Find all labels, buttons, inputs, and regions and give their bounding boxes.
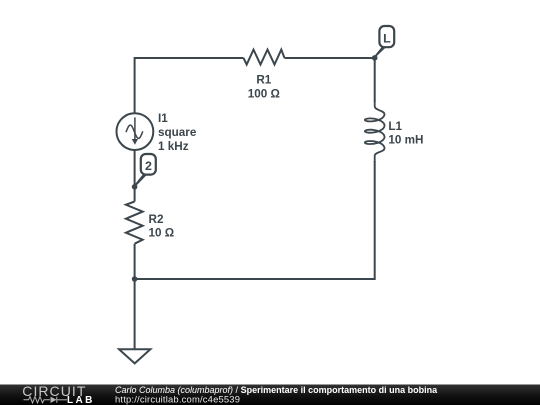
footer bar [0, 385, 540, 405]
svg-text:http://circuitlab.com/c4e5539: http://circuitlab.com/c4e5539 [115, 394, 240, 405]
svg-text:100 Ω: 100 Ω [248, 88, 280, 101]
wire right side down to inductor [374, 58, 376, 102]
svg-text:L: L [383, 31, 391, 45]
wire R1 to node L corner [285, 57, 375, 59]
I1 arrowhead [132, 139, 138, 145]
svg-text:2: 2 [145, 159, 152, 173]
svg-text:R2: R2 [149, 213, 164, 226]
ground [119, 349, 150, 363]
node 2 flag [135, 154, 156, 186]
svg-text:10 Ω: 10 Ω [149, 227, 175, 240]
inductor L1 [365, 101, 385, 163]
junction bottom-left dot [132, 276, 138, 282]
node L flag [374, 26, 394, 57]
I1 arrow shaft [134, 117, 136, 140]
svg-text:R1: R1 [256, 74, 271, 87]
current source I1 circle [116, 113, 153, 150]
junction node L dot [372, 55, 378, 61]
svg-text:L1: L1 [388, 120, 402, 133]
CircuitLab logo circuit line [24, 397, 68, 403]
resistor R2 [126, 202, 143, 244]
wire R2 to ground [134, 244, 136, 350]
junction node 2 dot [132, 184, 138, 190]
wire source to node 2 and resistor R2 [134, 150, 136, 202]
svg-text:I1: I1 [158, 112, 168, 125]
I1 sine squiggle [126, 125, 143, 138]
CircuitLab logo diode [51, 397, 57, 403]
wire top-left to R1 [135, 58, 244, 113]
svg-text:1 kHz: 1 kHz [158, 140, 189, 153]
labels [149, 74, 424, 240]
resistor R1 [244, 50, 285, 65]
svg-text:LAB: LAB [67, 395, 95, 405]
svg-text:square: square [158, 126, 197, 139]
svg-text:10 mH: 10 mH [388, 134, 423, 147]
wire inductor to bottom-right corner [135, 161, 375, 279]
